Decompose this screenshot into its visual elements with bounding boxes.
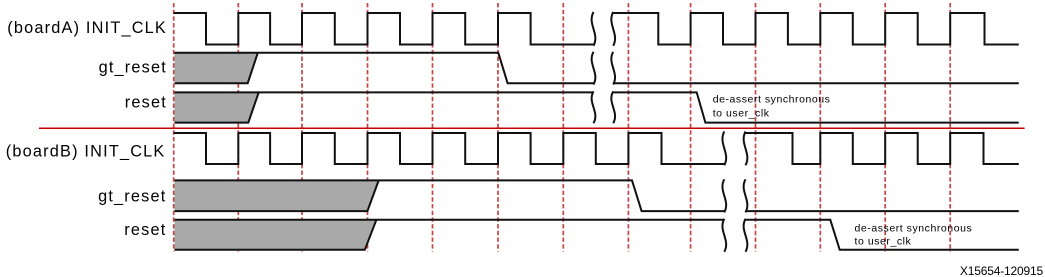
- grid line 7: [562, 3, 564, 252]
- boardA gt_reset break squiggle left: [592, 52, 596, 85]
- boardB INIT_CLK waveform (before break): [174, 133, 725, 164]
- svg-text:gt_reset: gt_reset: [98, 187, 166, 205]
- svg-text:de-assert synchronous: de-assert synchronous: [855, 222, 973, 234]
- boardB reset waveform (high before break): [175, 219, 725, 221]
- boardA gt_reset waveform (top line, de-assert fall, low before break): [175, 53, 594, 83]
- boardB INIT_CLK waveform (after break): [746, 133, 1019, 164]
- grid line 13: [949, 3, 951, 252]
- grid line 3: [301, 3, 303, 252]
- boardB gt_reset break squiggle left: [722, 179, 726, 212]
- grid line 5: [432, 3, 434, 252]
- boardA reset break squiggle left: [592, 91, 596, 123]
- grid line 10: [755, 3, 757, 252]
- boardA gt_reset asserted region (gray trapezoid): [175, 53, 258, 83]
- boardA INIT_CLK waveform (after break): [613, 13, 1019, 45]
- grid line 2: [237, 3, 239, 252]
- board separator (red horizontal line): [39, 127, 1025, 129]
- grid line 8: [627, 3, 629, 252]
- boardB gt_reset asserted region (gray trapezoid): [175, 180, 379, 211]
- svg-text:de-assert synchronous: de-assert synchronous: [713, 93, 831, 105]
- boardB gt_reset break squiggle right: [744, 179, 748, 212]
- svg-text:X15654-120915: X15654-120915: [960, 264, 1044, 277]
- grid line 11: [819, 3, 821, 252]
- boardA reset waveform (after break, de-assert fall, low to end): [613, 92, 1019, 122]
- boardA INIT_CLK break squiggle right: [611, 12, 615, 46]
- svg-text:(boardA) INIT_CLK: (boardA) INIT_CLK: [7, 19, 167, 37]
- svg-text:reset: reset: [125, 93, 167, 111]
- boardB reset trapezoid bottom edge and valid-transition diagonal: [175, 220, 377, 250]
- grid line 12: [884, 3, 886, 252]
- boardA reset waveform (high before break): [175, 91, 594, 93]
- boardB INIT_CLK break squiggle left: [722, 132, 726, 166]
- boardB gt_reset waveform (top line, de-assert fall, low before break): [175, 180, 725, 211]
- grid line 1: [173, 3, 175, 252]
- boardA gt_reset break squiggle right: [611, 52, 615, 85]
- boardB INIT_CLK break squiggle right: [744, 132, 748, 166]
- boardA INIT_CLK waveform (before break): [174, 13, 594, 45]
- boardB reset break squiggle right: [744, 219, 748, 252]
- boardB reset break squiggle left: [722, 219, 726, 252]
- boardA gt_reset waveform (low after break): [613, 82, 1019, 84]
- grid line 6: [497, 3, 499, 252]
- svg-text:(boardB) INIT_CLK: (boardB) INIT_CLK: [6, 142, 166, 160]
- boardA gt_reset trapezoid bottom edge and valid-transition diagonal: [175, 53, 258, 83]
- grid line 4: [367, 3, 369, 252]
- boardB reset asserted region (gray trapezoid): [175, 220, 377, 250]
- svg-text:gt_reset: gt_reset: [99, 58, 167, 76]
- boardA INIT_CLK break squiggle left: [592, 12, 596, 46]
- boardA reset trapezoid bottom edge and valid-transition diagonal: [175, 92, 259, 122]
- boardB reset waveform (after break, de-assert fall, low to end): [746, 220, 1019, 250]
- svg-text:to user_clk: to user_clk: [855, 235, 912, 247]
- svg-text:reset: reset: [124, 221, 166, 239]
- boardA reset break squiggle right: [611, 91, 615, 123]
- svg-text:to user_clk: to user_clk: [713, 108, 770, 120]
- boardB gt_reset trapezoid bottom edge and valid-transition diagonal: [175, 180, 379, 211]
- grid line 9: [690, 3, 692, 252]
- boardA reset asserted region (gray trapezoid): [175, 92, 259, 122]
- boardB gt_reset waveform (low after break): [746, 210, 1019, 212]
- clock-edge grid (red dashed vertical lines): [174, 3, 951, 252]
